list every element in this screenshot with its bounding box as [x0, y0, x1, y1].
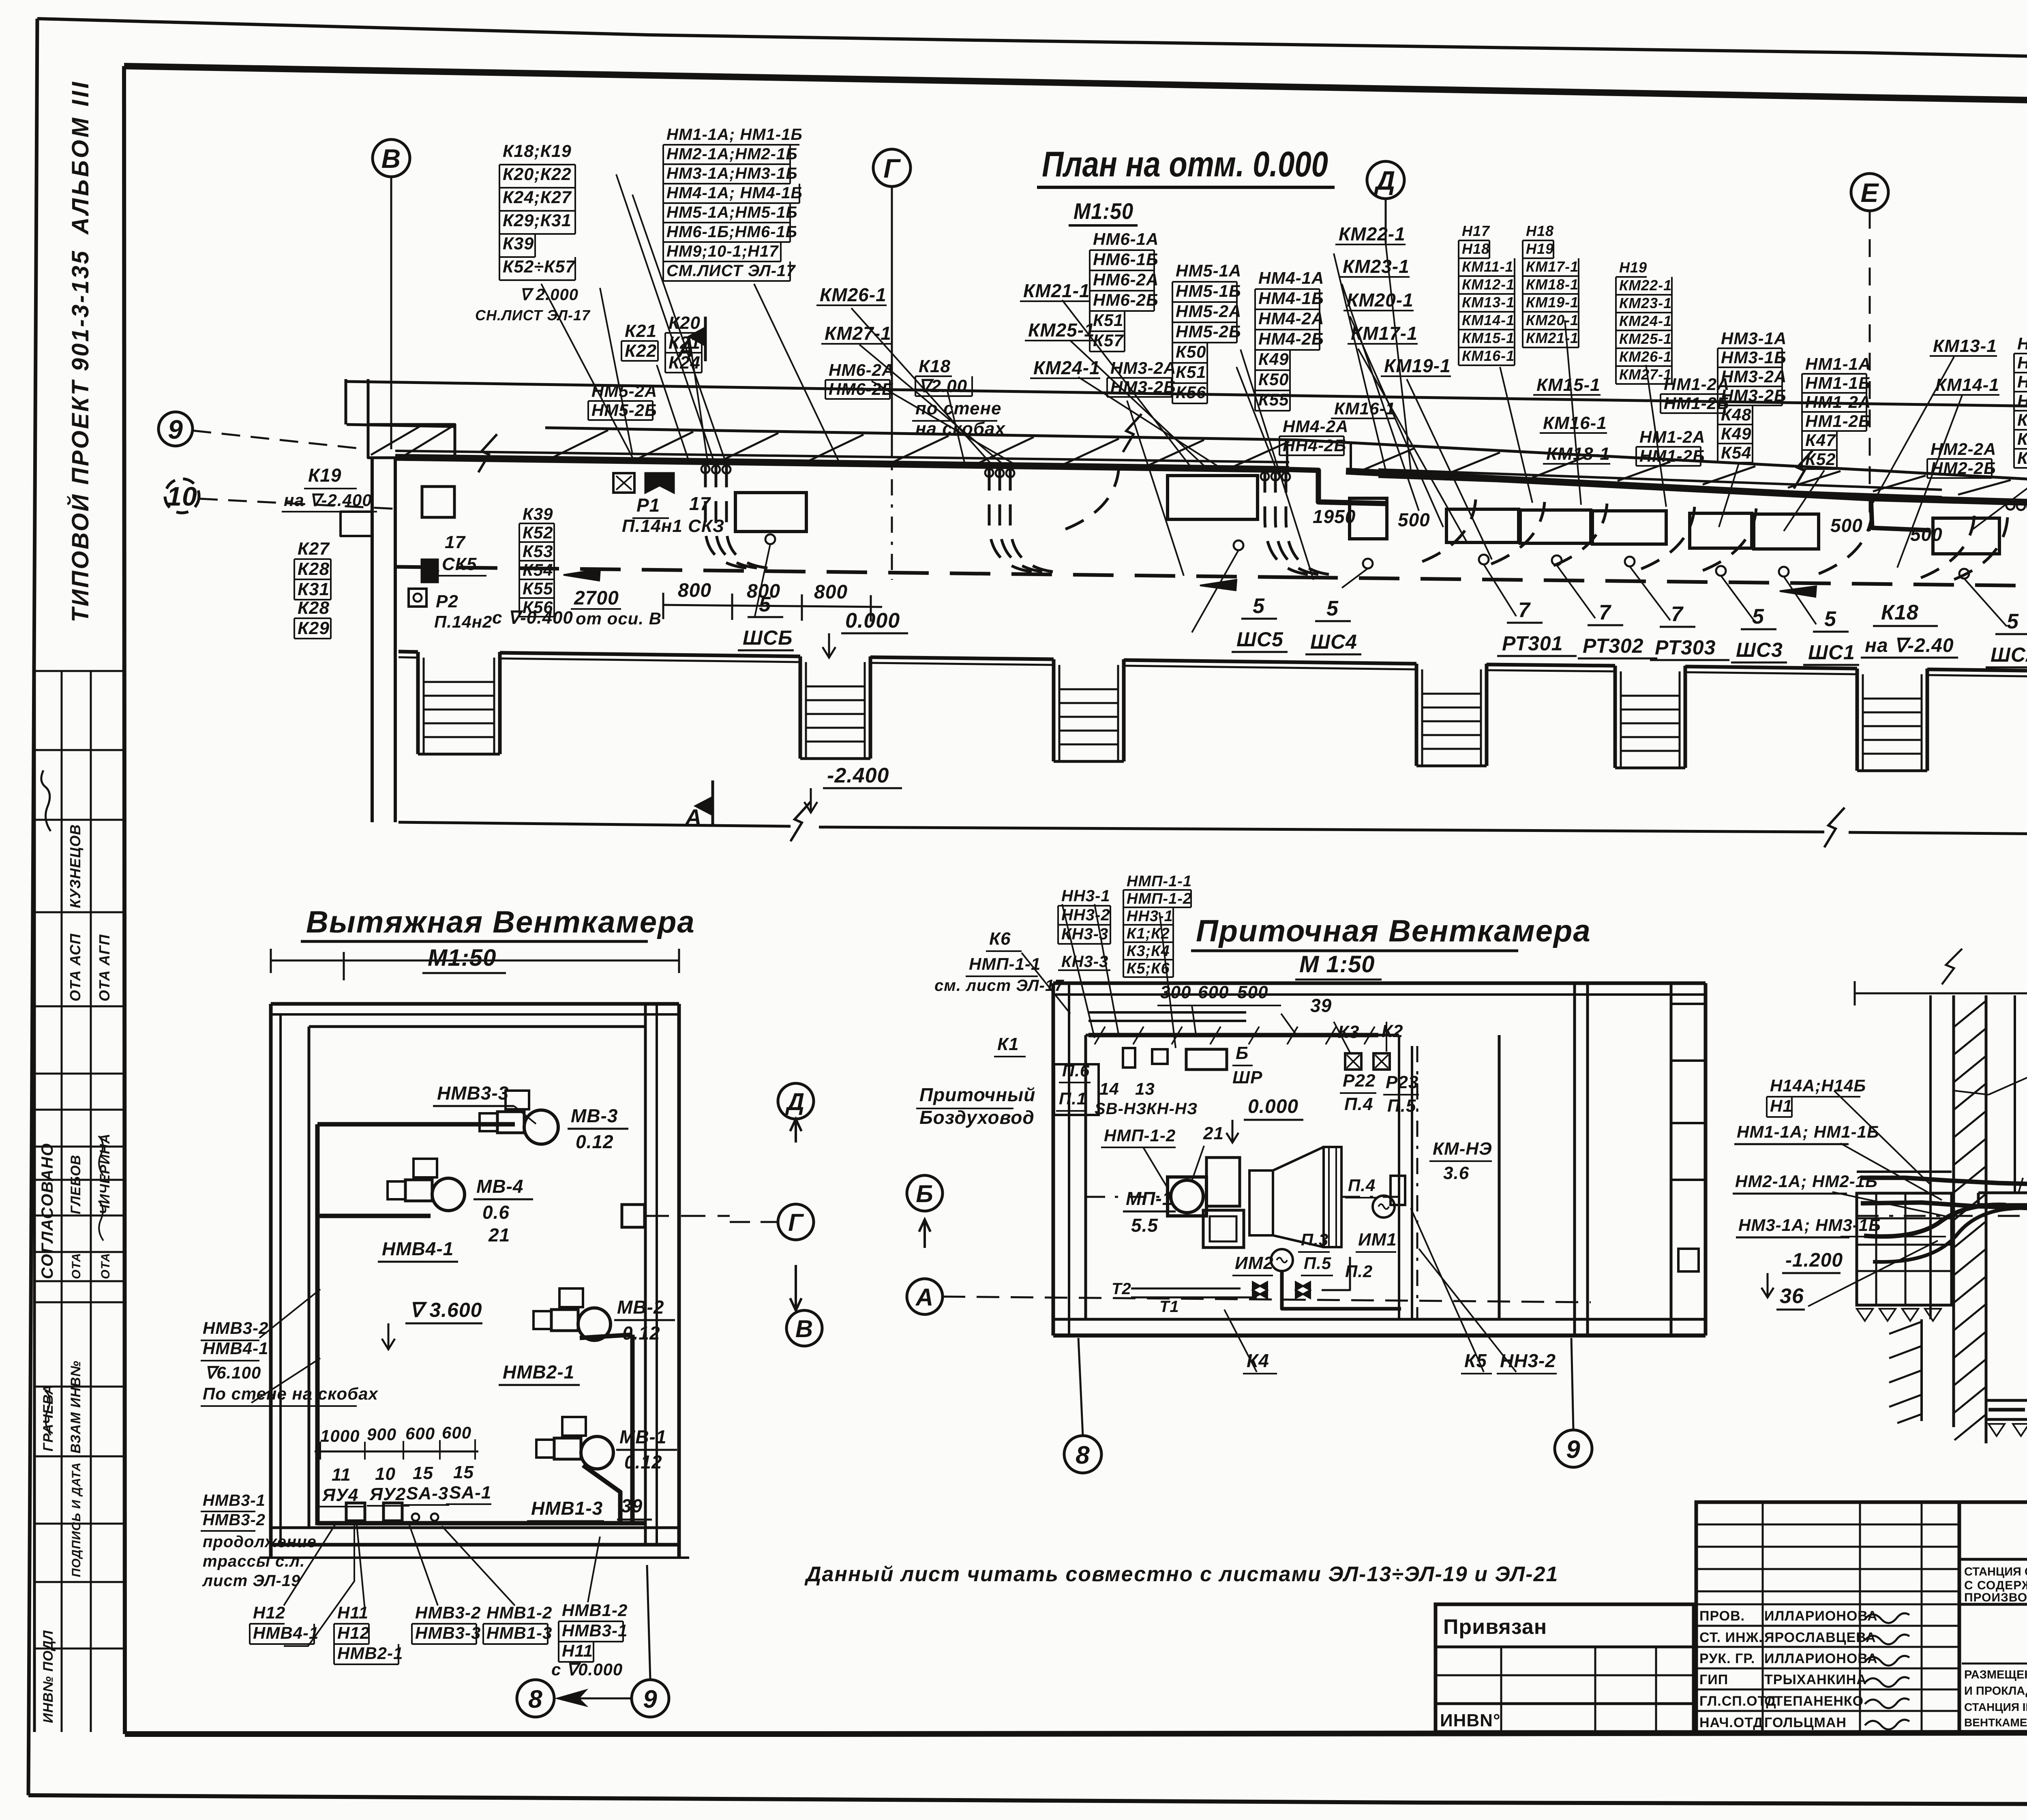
svg-text:КМ13-1: КМ13-1: [1933, 336, 1997, 356]
dims 800: [663, 580, 882, 622]
svg-text:К47: К47: [2017, 410, 2027, 429]
wall connection circles: [701, 465, 2027, 510]
wall hatch: [551, 430, 2027, 502]
svg-text:МВ-2: МВ-2: [617, 1297, 664, 1318]
panel РТ302: [1520, 510, 1595, 618]
svg-text:Т2: Т2: [1112, 1280, 1131, 1298]
section ground hatch: [1857, 1309, 2027, 1436]
ot osi: [576, 609, 662, 628]
svg-text:К47: К47: [1805, 431, 1836, 450]
svg-text:В: В: [381, 144, 401, 174]
svg-text:К52: К52: [523, 523, 553, 542]
svg-text:КМ22-1: КМ22-1: [1339, 223, 1406, 244]
dim 500a: [1398, 509, 1430, 530]
label stack КМ18-1: [1543, 444, 1610, 464]
s1 extra: [475, 286, 591, 324]
svg-text:НМВ4-1: НМВ4-1: [382, 1238, 454, 1259]
svg-text:КМ20-1: КМ20-1: [1526, 312, 1579, 328]
svg-text:НМ4-1А: НМ4-1А: [1258, 268, 1324, 287]
section leaders: [1808, 1042, 2027, 1418]
svg-text:НМВ3-2: НМВ3-2: [203, 1511, 266, 1529]
svg-text:КМ17-1: КМ17-1: [1526, 258, 1579, 275]
svg-text:НМВ1-3: НМВ1-3: [531, 1498, 603, 1519]
svg-text:П.4: П.4: [1344, 1094, 1373, 1114]
svg-text:И ПРОКЛАДКА КАБЕЛЕЙ НАСОСНАЯ: И ПРОКЛАДКА КАБЕЛЕЙ НАСОСНАЯ: [1964, 1684, 2027, 1698]
svg-text:ЯРОСЛАВЦЕВА: ЯРОСЛАВЦЕВА: [1764, 1630, 1876, 1645]
lower wall: [399, 652, 2027, 677]
label stack К28: [294, 598, 331, 639]
svg-text:SВ-НЗ: SВ-НЗ: [1095, 1100, 1146, 1118]
svg-text:КМ24-1: КМ24-1: [1619, 313, 1672, 329]
svg-text:Н14А;Н14Б: Н14А;Н14Б: [1770, 1076, 1866, 1095]
label stack КМ21-1: [1020, 280, 1090, 301]
svg-text:К53: К53: [523, 542, 553, 561]
label stack НМ2-1А: [2014, 334, 2027, 468]
svg-text:0.6: 0.6: [482, 1202, 510, 1223]
svg-text:НМ6-1Б;НМ6-1Б: НМ6-1Б;НМ6-1Б: [666, 223, 797, 241]
svg-text:ОТА: ОТА: [70, 1253, 83, 1279]
label stack Н11: [334, 1603, 403, 1664]
label ШС1: [1803, 607, 1859, 665]
break marks band: [478, 414, 2027, 742]
label stack КМ23-1: [1339, 256, 1410, 277]
svg-text:Н19: Н19: [1619, 259, 1647, 276]
exhaust room walls: [259, 1004, 689, 1558]
svg-text:К54: К54: [1721, 443, 1752, 462]
exhaust items: [319, 1462, 491, 1521]
dim 500b: [1830, 515, 1863, 536]
label stack К27: [294, 539, 331, 600]
label stack КМ26-1: [816, 284, 887, 305]
a4: [1736, 1215, 1881, 1237]
label stack НН3-1: [1058, 887, 1110, 944]
label stack КМ25-1: [1025, 319, 1095, 341]
cable jog to ШС2: [1871, 498, 1931, 530]
svg-text:КМ25-1: КМ25-1: [1619, 330, 1672, 347]
exhaust dim row: [315, 1423, 478, 1460]
svg-text:7: 7: [1518, 598, 1531, 622]
svg-text:НАЧ.ОТД: НАЧ.ОТД: [1699, 1715, 1763, 1730]
supply pipes: [1112, 1257, 1401, 1316]
svg-text:НМ1-2Б: НМ1-2Б: [1805, 412, 1871, 431]
svg-text:ОТА АГП: ОТА АГП: [96, 934, 113, 1001]
svg-text:7: 7: [1671, 602, 1684, 626]
svg-text:ШС3: ШС3: [1736, 639, 1783, 661]
axis mark B: [373, 139, 410, 177]
svg-text:К3: К3: [1338, 1022, 1360, 1042]
label ШС4: [1305, 597, 1361, 654]
svg-text:ШС4: ШС4: [1310, 630, 1357, 653]
svg-text:КМ23-1: КМ23-1: [1619, 295, 1672, 311]
svg-text:ЯУ2: ЯУ2: [369, 1484, 406, 1504]
supply cable ticks: [1095, 1027, 1375, 1044]
label РТ301: [1497, 598, 1577, 656]
svg-text:ГИП: ГИП: [1699, 1672, 1728, 1687]
svg-text:КМ19-1: КМ19-1: [1384, 355, 1451, 376]
svg-text:НМ1-2А: НМ1-2А: [1639, 427, 1705, 446]
svg-text:300: 300: [1160, 982, 1191, 1002]
elevation -2.400: [804, 764, 902, 812]
section lower wall hatch2: [1889, 1319, 1922, 1423]
svg-text:600: 600: [405, 1424, 435, 1443]
svg-text:НМВ3-1: НМВ3-1: [203, 1492, 266, 1509]
svg-text:13: 13: [1135, 1079, 1155, 1098]
svg-text:НМ2-2Б: НМ2-2Б: [2017, 391, 2027, 410]
supply room walls: [1053, 983, 1706, 1336]
svg-text:Боздуховод: Боздуховод: [919, 1107, 1035, 1128]
svg-text:КМ12-1: КМ12-1: [1462, 276, 1515, 293]
exhaust leaders: [251, 1289, 600, 1646]
svg-text:К22: К22: [625, 341, 657, 361]
svg-text:К28: К28: [298, 559, 330, 579]
wall cable run thick line: [395, 457, 2027, 508]
svg-text:НМ1-1А; НМ1-1Б: НМ1-1А; НМ1-1Б: [1737, 1122, 1879, 1141]
svg-text:НН3-2: НН3-2: [1061, 906, 1110, 924]
svg-text:Н18: Н18: [1462, 240, 1490, 257]
svg-text:∇ 3.600: ∇ 3.600: [409, 1299, 482, 1321]
svg-text:Н12: Н12: [337, 1623, 370, 1642]
svg-text:ШС2: ШС2: [1991, 643, 2027, 666]
section cable bundle: [1861, 1178, 2027, 1262]
svg-text:НМ1-2Б: НМ1-2Б: [1639, 446, 1705, 465]
svg-text:КМ26-1: КМ26-1: [820, 284, 887, 305]
label stack НМ5-2А: [588, 382, 657, 420]
svg-text:15: 15: [453, 1462, 474, 1482]
svg-text:К50: К50: [1176, 342, 1206, 361]
svg-text:КМ18-1: КМ18-1: [1526, 276, 1579, 293]
svg-text:НМ5-2А: НМ5-2А: [1176, 302, 1241, 321]
section labels left: [0, 0, 0, 0]
offset cable tray: [1378, 469, 1942, 497]
svg-text:Н12: Н12: [253, 1603, 285, 1622]
svg-text:∇6.100: ∇6.100: [205, 1363, 261, 1382]
svg-text:СТАНЦИЯ II°ПОДЪЕМА.ПЛАН НА ОТМ: СТАНЦИЯ II°ПОДЪЕМА.ПЛАН НА ОТМ.0.000: [1964, 1701, 2027, 1713]
supply leaders: [1022, 904, 1516, 1372]
svg-text:РТ302: РТ302: [1583, 635, 1643, 657]
label ШС5: [1232, 594, 1288, 652]
a3: [1733, 1172, 1878, 1194]
svg-text:Данный лист читать совместн: Данный лист читать совместно с листами Э…: [804, 1563, 1558, 1586]
label stack Н14А;Н14Б: [1767, 1076, 1866, 1117]
label stack НМ2-2А: [1927, 439, 1996, 478]
axis mark E: [1851, 174, 1888, 211]
label stack К20: [665, 313, 702, 373]
svg-text:ГЛЕБОВ: ГЛЕБОВ: [68, 1155, 84, 1214]
svg-text:НМ5-1А: НМ5-1А: [1176, 261, 1241, 280]
svg-text:Н19: Н19: [1526, 240, 1554, 257]
svg-text:ИЛЛАРИОНОВА: ИЛЛАРИОНОВА: [1764, 1651, 1878, 1666]
label stack НМВ3-2: [412, 1603, 481, 1644]
supply dims: [1157, 982, 1281, 1005]
svg-text:НМ3-1А;НМ3-1Б: НМ3-1А;НМ3-1Б: [666, 165, 798, 182]
svg-text:КМ19-1: КМ19-1: [1526, 294, 1579, 311]
label stack Н18: [1523, 223, 1579, 347]
svg-text:НМВ3-3: НМВ3-3: [415, 1623, 481, 1642]
svg-text:К56: К56: [1176, 383, 1206, 402]
svg-text:39: 39: [1310, 995, 1332, 1016]
svg-text:5: 5: [2007, 610, 2019, 633]
svg-text:К18: К18: [1881, 601, 1919, 624]
svg-text:10: 10: [375, 1464, 396, 1484]
svg-text:SА-1: SА-1: [449, 1483, 491, 1503]
plan left wall: [341, 458, 454, 822]
svg-text:НМ4-1А; НМ4-1Б: НМ4-1А; НМ4-1Б: [666, 184, 803, 202]
axis mark G: [873, 149, 911, 187]
svg-text:Н11: Н11: [562, 1641, 593, 1660]
label stack КМ16-1: [1331, 399, 1395, 418]
svg-text:Приточный: Приточный: [919, 1084, 1035, 1105]
svg-text:800: 800: [814, 581, 848, 603]
svg-text:К6: К6: [989, 929, 1011, 949]
svg-text:КМ21-1: КМ21-1: [1526, 330, 1579, 346]
svg-text:17: 17: [689, 493, 711, 514]
svg-text:НМ1-1Б: НМ1-1Б: [1805, 373, 1871, 392]
svg-text:КМ13-1: КМ13-1: [1462, 294, 1515, 311]
svg-text:10: 10: [167, 481, 197, 511]
label stack НМ4-1А: [1255, 268, 1324, 411]
svg-text:7: 7: [1599, 601, 1611, 624]
svg-text:5: 5: [1752, 605, 1764, 628]
svg-text:М 1:50: М 1:50: [1299, 951, 1375, 978]
svg-text:0.12: 0.12: [576, 1131, 614, 1152]
titleblock middle table: [1696, 1502, 1959, 1732]
svg-text:900: 900: [367, 1425, 396, 1444]
svg-text:600: 600: [1198, 982, 1229, 1002]
fan МВ-1: [527, 1417, 677, 1521]
svg-text:КМ11-1: КМ11-1: [1462, 258, 1514, 275]
svg-text:Р22: Р22: [1343, 1071, 1376, 1091]
svg-text:К20: К20: [669, 313, 701, 333]
svg-text:Н17: Н17: [1462, 223, 1490, 239]
svg-text:Привязан: Привязан: [1443, 1615, 1547, 1639]
axis leader B: [390, 177, 392, 449]
svg-text:НМВ4-1: НМВ4-1: [253, 1623, 319, 1642]
svg-text:К1: К1: [997, 1034, 1019, 1054]
svg-text:ПРОВ.: ПРОВ.: [1699, 1608, 1745, 1624]
svg-text:Г: Г: [788, 1209, 804, 1236]
svg-text:9: 9: [643, 1685, 657, 1713]
svg-text:В: В: [795, 1315, 813, 1342]
svg-text:800: 800: [747, 581, 780, 602]
svg-text:КМ15-1: КМ15-1: [1462, 330, 1515, 346]
svg-text:2700: 2700: [574, 587, 619, 609]
a6: [1776, 1284, 1805, 1310]
fan МВ-3: [480, 1091, 628, 1152]
label stack НМВ1-2: [483, 1603, 552, 1644]
svg-text:К39: К39: [523, 504, 553, 523]
margin stamp text: album: [67, 79, 94, 235]
svg-text:РАЗМЕЩЕНИЕ ЭЛЕКТРООБОРУДОВАНИЯ: РАЗМЕЩЕНИЕ ЭЛЕКТРООБОРУДОВАНИЯ: [1964, 1668, 2027, 1681]
svg-text:ПОДПИСЬ И ДАТА: ПОДПИСЬ И ДАТА: [70, 1462, 83, 1577]
svg-text:ТИПОВОЙ ПРОЕКТ 901-3-135: ТИПОВОЙ ПРОЕКТ 901-3-135: [67, 249, 94, 622]
main dashed cable run: [395, 567, 2027, 589]
label stack НМ1-2А: [1661, 375, 1729, 413]
svg-text:К49: К49: [1721, 424, 1752, 443]
svg-text:КМ23-1: КМ23-1: [1343, 256, 1410, 277]
svg-text:К19: К19: [308, 465, 341, 486]
svg-text:К28: К28: [298, 598, 330, 618]
label stack НМ6-2А: [825, 360, 894, 399]
svg-text:К21: К21: [625, 321, 657, 341]
axis leader G: [891, 187, 893, 580]
svg-text:АЛЬБОМ III: АЛЬБОМ III: [67, 79, 94, 235]
svg-text:П.5: П.5: [1387, 1096, 1416, 1116]
svg-text:К31: К31: [298, 579, 330, 599]
cable run arrows: [564, 569, 2027, 597]
svg-text:21: 21: [488, 1224, 510, 1245]
svg-text:Приточная Венткамера: Приточная Венткамера: [1196, 914, 1591, 948]
label stack КМ14-1: [1932, 375, 1999, 395]
svg-text:Н1: Н1: [1770, 1096, 1793, 1115]
margin stamp text: project number: [67, 249, 94, 622]
svg-text:К18: К18: [919, 356, 951, 376]
svg-text:К52÷К57: К52÷К57: [503, 257, 576, 277]
svg-text:П.4: П.4: [1348, 1176, 1376, 1195]
svg-text:КН-НЗ: КН-НЗ: [1146, 1100, 1198, 1118]
svg-text:МП-1: МП-1: [1126, 1188, 1173, 1209]
svg-text:КМ20-1: КМ20-1: [1347, 289, 1414, 311]
svg-text:1950: 1950: [1313, 506, 1356, 527]
elev 3.600: [382, 1299, 482, 1349]
supply labels left: [916, 929, 1198, 1128]
svg-text:М1:50: М1:50: [428, 945, 496, 971]
svg-text:К53: К53: [2017, 448, 2027, 467]
svg-text:Вытяжная Венткамера: Вытяжная Венткамера: [306, 905, 695, 939]
label stack НМ3-2А: [1107, 358, 1176, 397]
svg-text:5.5: 5.5: [1131, 1215, 1158, 1236]
svg-text:500: 500: [1830, 515, 1863, 536]
label ШС3: [1731, 605, 1787, 662]
axis leader E: [1869, 211, 1871, 531]
label stack НМ3-1А: [1718, 329, 1787, 463]
svg-text:5: 5: [1326, 597, 1339, 620]
svg-text:А: А: [684, 804, 702, 830]
svg-text:К48: К48: [2017, 429, 2027, 448]
label НМВ3-3: [433, 1083, 536, 1124]
label stack К21: [621, 321, 658, 361]
panel ШС2: [1933, 518, 2007, 626]
svg-text:К29;К31: К29;К31: [503, 211, 572, 230]
margin stamp table grid: [34, 671, 124, 1732]
svg-text:М1:50: М1:50: [1073, 198, 1133, 224]
panel ШС1: [1754, 514, 1819, 624]
svg-text:НМ2-1А; НМ2-1Б: НМ2-1А; НМ2-1Б: [1735, 1172, 1878, 1191]
section wall hatched: [1954, 995, 1986, 1443]
svg-text:НМВ3-2: НМВ3-2: [415, 1603, 481, 1622]
svg-text:Р23: Р23: [1386, 1072, 1418, 1092]
svg-text:ЧИЧЕРИНА: ЧИЧЕРИНА: [97, 1133, 113, 1214]
svg-text:КМ14-1: КМ14-1: [1462, 312, 1515, 328]
label РТ303: [1650, 602, 1729, 660]
supply device boxes: [1123, 995, 1419, 1116]
svg-text:ВЗАМ ИНВ№: ВЗАМ ИНВ№: [68, 1361, 84, 1453]
label stack 2700: [571, 587, 621, 609]
svg-text:К20;К22: К20;К22: [503, 165, 572, 184]
svg-text:К24: К24: [669, 353, 701, 373]
a5: [1761, 1250, 1843, 1297]
svg-text:1000: 1000: [320, 1426, 360, 1445]
svg-text:600: 600: [442, 1423, 471, 1442]
svg-text:ИНВN°: ИНВN°: [1440, 1711, 1501, 1730]
svg-text:КМ21-1: КМ21-1: [1023, 280, 1090, 301]
label stack КМ24-1: [1030, 357, 1100, 378]
svg-text:П.3: П.3: [1301, 1230, 1328, 1249]
axis stub room1: [622, 1205, 730, 1227]
svg-text:800: 800: [678, 580, 711, 601]
svg-text:НМ1-2Б: НМ1-2Б: [1664, 394, 1729, 413]
svg-text:МВ-3: МВ-3: [571, 1105, 618, 1126]
panel box1: [735, 493, 806, 616]
svg-text:МВ-1: МВ-1: [619, 1426, 666, 1447]
sk5 group: [409, 532, 492, 631]
svg-text:500: 500: [1237, 982, 1268, 1002]
svg-text:ОТА: ОТА: [99, 1253, 112, 1279]
margin signatures: [41, 770, 103, 1435]
svg-text:НМВ1-2: НМВ1-2: [562, 1601, 628, 1620]
svg-text:КМ15-1: КМ15-1: [1536, 375, 1601, 395]
section floor slab: [1978, 1193, 2027, 1205]
svg-text:НМ1-2А: НМ1-2А: [1805, 392, 1871, 412]
svg-text:14: 14: [1099, 1079, 1119, 1098]
dim 500c: [1910, 524, 1943, 545]
svg-text:К2: К2: [1382, 1021, 1403, 1041]
svg-text:П.14н2: П.14н2: [434, 612, 492, 631]
svg-text:К27: К27: [298, 539, 330, 559]
svg-text:НМ5-2Б: НМ5-2Б: [1176, 322, 1241, 341]
svg-text:36: 36: [1780, 1284, 1804, 1308]
axis circles DGB: [730, 1083, 1591, 1346]
svg-text:НН3-2: НН3-2: [1500, 1350, 1556, 1371]
svg-text:НМП-1-2: НМП-1-2: [1127, 890, 1192, 907]
panel ШС3: [1690, 513, 1755, 622]
bundle ticks: [2018, 1178, 2027, 1194]
conduit dashed drops: [705, 466, 2008, 582]
svg-text:НМП-1-2: НМП-1-2: [1104, 1126, 1176, 1145]
axis mark 10 left: [165, 479, 199, 513]
margin rotated cell texts: [39, 824, 113, 1723]
po stene: [912, 399, 1006, 439]
exhaust circles 8 9: [517, 1565, 669, 1717]
label stack К18;К19: [499, 141, 576, 280]
svg-text:ГРАЧЕВА: ГРАЧЕВА: [41, 1384, 56, 1451]
label ШС2: [1986, 610, 2027, 667]
svg-text:КМ24-1: КМ24-1: [1033, 357, 1100, 378]
elevation 0.000: [823, 609, 908, 658]
label ШСБ: [738, 593, 794, 650]
svg-text:К29: К29: [298, 618, 330, 638]
svg-text:8: 8: [528, 1685, 542, 1713]
svg-text:ИЛЛАРИОНОВА: ИЛЛАРИОНОВА: [1764, 1608, 1878, 1624]
label stack Н12: [250, 1603, 319, 1644]
exhaust left labels: [201, 1318, 378, 1590]
svg-text:5: 5: [1824, 607, 1836, 631]
svg-text:см. лист ЭЛ-17: см. лист ЭЛ-17: [934, 977, 1064, 995]
label stack НМ1-2А: [1636, 427, 1705, 466]
svg-text:SА-3: SА-3: [406, 1483, 448, 1503]
svg-text:Е: Е: [1860, 178, 1879, 208]
label stack НМ6-1А: [1090, 229, 1159, 352]
label К18 на -2.40: [1861, 601, 1958, 658]
label stack КМ20-1: [1343, 289, 1414, 311]
label stack НМП-1-1: [1123, 873, 1192, 977]
svg-text:НМ3-1А: НМ3-1А: [1721, 329, 1787, 348]
svg-text:трассы с.л.: трассы с.л.: [203, 1552, 305, 1570]
svg-text:НМ4-2Б: НМ4-2Б: [1258, 329, 1324, 348]
s0400: [492, 608, 573, 628]
svg-text:с ∇0.000: с ∇0.000: [551, 1660, 623, 1679]
label stack КМ27-1: [821, 323, 891, 344]
svg-text:НМ6-2А: НМ6-2А: [829, 360, 894, 379]
